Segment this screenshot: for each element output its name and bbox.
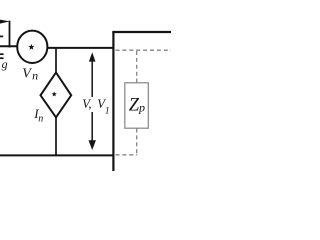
noise voltage source V_n circle xyxy=(17,31,47,63)
svg-text:p: p xyxy=(138,100,145,114)
wire top left horizontal from edge to circle xyxy=(0,45,18,47)
wire vertical from diamond bottom to bottom wire xyxy=(55,117,57,157)
noise current source I_n diamond xyxy=(41,73,72,118)
wire right vertical (output port) xyxy=(112,32,114,171)
dashed connection from Z_p bottom down to boundary xyxy=(136,129,138,155)
tick mark at left edge below wire 2 xyxy=(0,57,4,59)
svg-text:n: n xyxy=(38,114,43,125)
svg-text:n: n xyxy=(32,69,38,83)
wire vertical from top wire down to diamond top xyxy=(55,48,57,74)
dashed boundary bottom horizontal xyxy=(116,154,138,156)
wire bottom horizontal xyxy=(0,154,115,156)
load impedance Z_p rectangle xyxy=(125,83,149,128)
star inside I_n source xyxy=(52,92,57,97)
svg-text:1: 1 xyxy=(105,107,110,117)
svg-text:V,: V, xyxy=(82,97,91,111)
arrowhead of generator current arrow (cut at left edge) xyxy=(0,20,10,24)
tick mark at left edge (cut label) xyxy=(0,35,3,37)
svg-text:V: V xyxy=(22,66,32,81)
star inside V_n source xyxy=(28,44,34,50)
wire top horizontal from circle to right vertical wire xyxy=(47,47,114,49)
voltage arrow down (annotation V1) xyxy=(89,112,96,150)
wire vertical stub at x=9.5 from arrow to top wire xyxy=(9,21,11,48)
tick mark at left edge below wire 1 xyxy=(0,53,4,55)
dashed connection from boundary down to Z_p top xyxy=(136,51,138,83)
dashed boundary top horizontal xyxy=(116,49,172,51)
wire top right horizontal (cut at right edge) xyxy=(112,31,171,33)
svg-text:g: g xyxy=(2,57,8,71)
voltage arrow up (annotation V) xyxy=(89,52,96,97)
label V, V1 xyxy=(82,97,109,117)
